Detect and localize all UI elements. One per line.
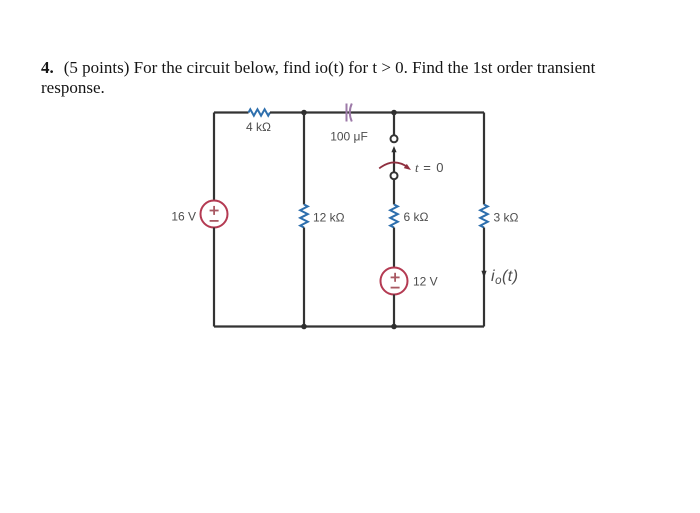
voltage source V1 16V xyxy=(201,201,228,228)
resistor R3 6 kOhm (vertical) xyxy=(390,205,398,228)
wire: 12V source to bottom rail xyxy=(393,295,395,327)
switch upper terminal xyxy=(391,135,398,142)
switch lower terminal xyxy=(391,172,398,179)
resistor R2 12 kOhm (vertical) xyxy=(300,205,308,228)
problem statement text xyxy=(41,58,631,98)
svg-text:io(t): io(t) xyxy=(491,268,519,287)
svg-text:t=0: t=0 xyxy=(415,160,443,175)
svg-text:3 kΩ: 3 kΩ xyxy=(494,211,519,225)
wire: right branch lower xyxy=(483,228,485,327)
switch blade arrow xyxy=(391,146,396,172)
node dot: bottom of switch branch xyxy=(391,324,397,330)
wire: left branch upper xyxy=(213,113,215,201)
wire: top rail middle and right (passes under capacitor) xyxy=(270,111,484,113)
resistor R1 4 kOhm (horizontal) xyxy=(249,109,271,115)
voltage source V2 12V xyxy=(381,268,408,295)
svg-text:6 kΩ: 6 kΩ xyxy=(404,210,429,224)
wire: 12k branch lower xyxy=(303,228,305,327)
wire: switch branch top stub xyxy=(393,113,395,136)
svg-text:12 kΩ: 12 kΩ xyxy=(313,211,345,225)
wire: bottom rail xyxy=(214,325,484,327)
switch closing arc (t=0) xyxy=(379,162,411,170)
node dot: top of switch branch xyxy=(391,110,397,116)
capacitor C1 100uF xyxy=(347,104,352,122)
wire: switch to 6k resistor xyxy=(393,179,395,205)
svg-text:4 kΩ: 4 kΩ xyxy=(246,120,271,134)
svg-text:100 μF: 100 μF xyxy=(330,130,368,144)
node dot: bottom of 12k branch xyxy=(301,324,307,330)
current arrow io(t) xyxy=(481,271,486,278)
wire: right branch upper xyxy=(483,113,485,205)
svg-text:12 V: 12 V xyxy=(413,275,438,289)
node dot: top of 12k branch xyxy=(301,110,307,116)
wire: 6k to 12V source xyxy=(393,228,395,268)
wire: top rail left segment xyxy=(214,111,249,113)
wire: 12k branch upper xyxy=(303,113,305,205)
svg-text:16 V: 16 V xyxy=(171,210,196,224)
resistor R4 3 kOhm (vertical) xyxy=(480,205,488,228)
wire: left branch lower xyxy=(213,228,215,327)
